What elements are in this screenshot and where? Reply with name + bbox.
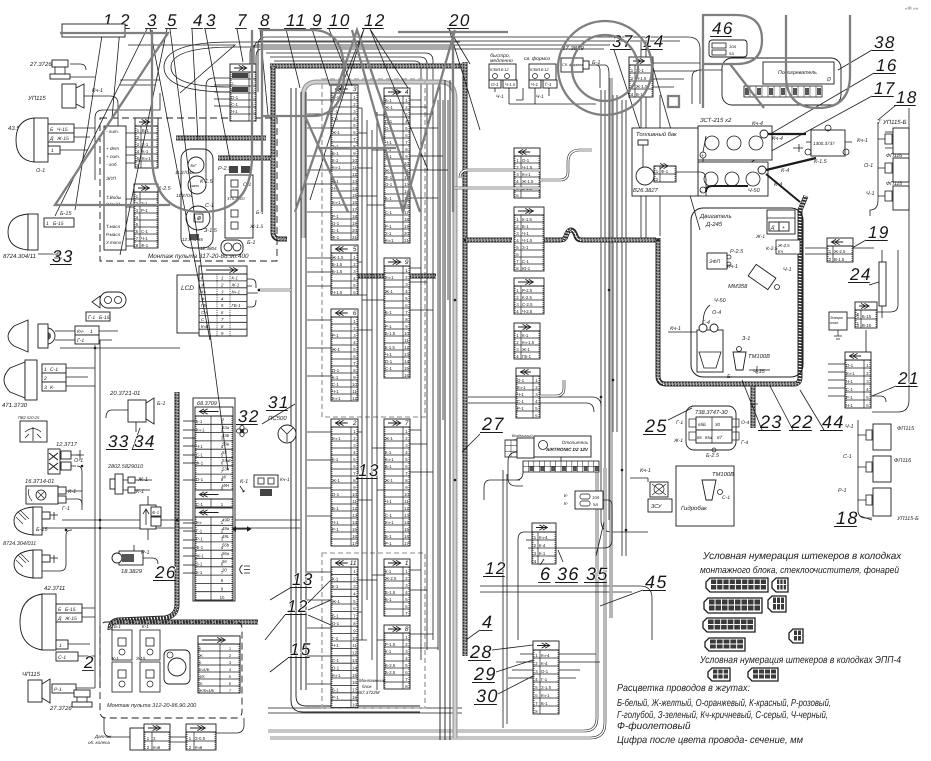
svg-text:5А: 5А [729,51,734,56]
svg-text:15: 15 [352,527,357,532]
svg-text:12: 12 [404,506,409,511]
svg-text:4/К: 4/К [199,674,205,679]
connector X6 монтажный блок [331,309,358,401]
wire far right vertical [872,108,909,412]
svg-text:27: 27 [481,414,505,434]
svg-text:ПВ2.520-25: ПВ2.520-25 [18,415,40,420]
wire top harness horizontals [266,37,700,104]
svg-text:Ф-1: Ф-1 [196,545,204,550]
svg-text:68.3709: 68.3709 [197,401,217,407]
svg-text:12: 12 [352,506,357,511]
svg-text:К-: К- [50,385,55,391]
svg-text:С-1: С-1 [231,102,239,107]
svg-text:Ж-15: Ж-15 [56,136,69,142]
wire bump loop from XA [452,170,540,188]
svg-text:12: 12 [287,597,309,616]
svg-text:12: 12 [352,396,357,401]
svg-text:Кч-1: Кч-1 [232,289,241,294]
connector X46a [629,57,653,97]
svg-text:К-1: К-1 [68,489,76,495]
пульт переключатели [112,630,132,660]
svg-text:Кч4/Б: Кч4/Б [199,667,210,672]
svg-text:36: 36 [557,564,580,584]
svg-text:2802.5829010: 2802.5829010 [107,464,144,470]
connector XA [514,148,540,198]
svg-text:ЧП115: ЧП115 [22,671,41,678]
svg-text:Кч-1: Кч-1 [857,138,868,144]
svg-text:32: 32 [238,407,260,426]
svg-text:85а: 85а [705,435,713,440]
svg-text:Ж-1: Ж-1 [385,436,393,441]
svg-text:Расцветка проводов в жгутах:: Расцветка проводов в жгутах: [617,683,750,694]
svg-text:53: 53 [222,450,227,455]
svg-text:Г-1: Г-1 [332,636,339,641]
svg-text:К-1.5: К-1.5 [385,345,396,350]
svg-text:Б: Б [857,312,860,317]
wire bottom outer loop [268,470,597,731]
svg-text:К-4: К-4 [541,661,548,666]
датчик ТМ100В в двигателе [733,352,746,370]
svg-text:Кч: Кч [778,249,784,254]
connector X21 [845,352,871,408]
svg-text:12: 12 [404,345,409,350]
wires into 68.3709 [183,420,195,422]
svg-text:С-1: С-1 [50,367,58,373]
svg-text:Б-1.5: Б-1.5 [332,269,343,274]
svg-text:22: 22 [790,412,814,432]
svg-text:Г-1: Г-1 [676,420,683,426]
svg-text:С-1: С-1 [385,210,393,215]
svg-text:К-: К- [564,493,569,498]
пульт прикуриватель [164,650,190,684]
svg-text:Б-1: Б-1 [332,506,339,511]
svg-text:53е: 53е [222,442,230,447]
svg-text:Г-4: Г-4 [741,440,748,446]
svg-text:53а: 53а [222,425,230,430]
svg-text:11: 11 [350,560,357,567]
svg-text:УП115: УП115 [27,95,46,102]
svg-text:21: 21 [404,238,409,243]
connector X1 монтажный блок [384,559,410,616]
svg-text:20: 20 [404,231,409,236]
bundle pult horizontal y203 [218,156,271,161]
svg-text:18: 18 [836,508,859,528]
svg-text:Ч-1: Ч-1 [231,109,238,114]
svg-text:О-4: О-4 [741,420,750,426]
svg-text:К-1: К-1 [142,624,149,629]
device гидробак [676,466,734,526]
svg-text:Б-2.5: Б-2.5 [385,670,396,675]
svg-text:О-1: О-1 [385,359,393,364]
svg-text:С-1: С-1 [58,655,66,661]
svg-text:С-1: С-1 [196,502,204,507]
wire pair y397 below engine [468,397,601,406]
svg-text:Б-1: Б-1 [332,614,339,619]
connector LCD [177,275,200,333]
svg-text:Р-1: Р-1 [385,224,392,229]
bundle drop x753 [751,386,756,428]
svg-text:С-1: С-1 [196,452,204,457]
svg-text:8: 8 [260,11,271,30]
dark cells X78 [232,73,248,78]
svg-text:10: 10 [404,331,409,336]
svg-text:1: 1 [857,321,859,326]
svg-text:Кч-4: Кч-4 [752,121,763,127]
wire verticals x=640,660 top [640,42,642,238]
svg-text:Р-1: Р-1 [838,488,847,494]
фонарь ФП115 верхний [893,128,909,154]
svg-text:Кч-1.5: Кч-1.5 [522,340,535,345]
svg-text:Ч-1: Ч-1 [332,389,339,394]
svg-text:+: + [701,153,704,159]
svg-text:Б-1: Б-1 [522,224,529,229]
svg-text:К-: К- [564,501,569,506]
wires central gap [361,108,363,640]
svg-text:Б-1: Б-1 [385,597,392,602]
svg-text:К-1: К-1 [142,149,149,154]
svg-text:12: 12 [352,172,357,177]
svg-text:Б-1.5: Б-1.5 [332,262,343,267]
svg-text:10А: 10А [592,495,600,500]
svg-text:−: − [700,189,703,195]
svg-text:27.3726: 27.3726 [49,705,72,712]
svg-text:15: 15 [404,366,409,371]
svg-text:⊤ УП115-Б: ⊤ УП115-Б [876,119,907,126]
svg-text:Р-1: Р-1 [385,541,392,546]
svg-text:45: 45 [645,572,668,592]
svg-text:Ж-1: Ж-1 [385,105,393,110]
svg-text:медленно: медленно [490,58,513,64]
svg-text:14: 14 [352,186,357,191]
svg-text:12: 12 [352,651,357,656]
svg-text:30: 30 [222,567,227,572]
svg-text:2: 2 [352,420,357,427]
svg-text:К-1: К-1 [332,158,339,163]
dashed box Монтаж пульта 317-20-86.90.400 [100,118,277,261]
svg-text:Ч-1: Ч-1 [783,267,792,273]
svg-text:Г-1: Г-1 [77,338,84,344]
svg-text:- лоб: - лоб [106,162,117,167]
svg-text:6: 6 [540,564,551,584]
svg-text:Б-1: Б-1 [247,240,255,246]
svg-text:К-1: К-1 [196,570,203,575]
svg-text:К-1: К-1 [332,375,339,380]
svg-text:О-1: О-1 [332,221,340,226]
клеммная колодка подогревателя [744,86,822,97]
svg-text:блок: блок [362,684,372,689]
svg-text:Ч-1: Ч-1 [332,643,339,648]
watermark ZURAVTO.RU [55,15,850,212]
svg-text:Д: Д [49,136,54,142]
svg-text:Монтаж пульта 312-20-86.90.200: Монтаж пульта 312-20-86.90.200 [107,703,197,709]
wire mid horizontals right of block [480,586,652,640]
svg-text:О-1: О-1 [332,492,340,497]
connector X5 монтажный блок [331,245,358,295]
svg-text:С-1: С-1 [385,366,393,371]
connector X24 [855,302,877,328]
svg-text:Р-1: Р-1 [196,537,203,542]
svg-text:35: 35 [586,564,609,584]
svg-text:монтажного блока, стеклоочисти: монтажного блока, стеклоочистителя, фона… [700,564,900,575]
svg-text:WH: WH [222,483,230,488]
device Ф-1 клапан со стрелкой [140,505,156,529]
svg-text:+ пит.: + пит. [106,154,120,159]
svg-text:17: 17 [404,210,409,215]
svg-text:4: 4 [482,612,493,632]
device ЭПП панель [104,126,126,250]
svg-text:Условная нумерация штекеров в: Условная нумерация штекеров в колодках [702,551,902,562]
central block outer frame wires [291,88,420,712]
svg-text:З-1: З-1 [385,231,392,236]
svg-text:Ч-1: Ч-1 [866,191,875,197]
svg-text:Б-1: Б-1 [385,464,392,469]
svg-text:К-1: К-1 [522,333,529,338]
svg-text:3: 3 [206,11,217,30]
svg-text:С-1: С-1 [332,228,340,233]
svg-text:Кч-1: Кч-1 [385,238,394,243]
svg-text:Кч-1: Кч-1 [517,385,526,390]
svg-text:К-4: К-4 [539,543,546,548]
svg-text:Б-15: Б-15 [53,221,64,227]
svg-text:15: 15 [352,673,357,678]
svg-text:24: 24 [849,265,872,284]
svg-text:Р-2.5: Р-2.5 [730,249,744,255]
svg-text:Ч-1: Ч-1 [517,392,524,397]
svg-text:С-2.5: С-2.5 [522,302,533,307]
connector X3 монтажный блок [331,85,358,240]
connector П2 пульта [134,184,158,248]
wire gray trunk x=611 [609,78,612,618]
device 18.3829 [119,551,143,565]
svg-text:О-1: О-1 [332,621,340,626]
device топливный бак [632,128,698,196]
svg-text:З-1.5: З-1.5 [204,228,218,234]
svg-text:44: 44 [822,412,845,432]
svg-text:О-1: О-1 [332,368,340,373]
svg-text:Г-1: Г-1 [196,528,203,533]
svg-text:8: 8 [405,626,409,633]
svg-text:AIRTRONIC D2 12V: AIRTRONIC D2 12V [545,447,589,452]
svg-text:О-1: О-1 [36,168,45,174]
svg-text:Б-1.5: Б-1.5 [385,590,396,595]
svg-text:17: 17 [352,207,357,212]
svg-text:Ж-1: Ж-1 [755,234,765,240]
svg-text:23: 23 [759,412,783,432]
svg-text:87: 87 [717,435,723,440]
svg-text:Монтажный: Монтажный [359,678,386,683]
svg-text:Кчб: Кчб [153,745,161,750]
svg-text:К-2.5: К-2.5 [522,295,533,300]
svg-text:1: 1 [405,560,409,567]
svg-text:Кч-1: Кч-1 [670,326,681,332]
клеммная колодка отопителя [523,461,599,472]
svg-text:Ч-1: Ч-1 [522,231,529,236]
svg-text:25: 25 [644,416,668,436]
connector X2 монтажный блок [331,419,358,546]
svg-text:Д-245: Д-245 [705,221,723,228]
svg-text:С-1: С-1 [522,259,530,264]
svg-text:26: 26 [154,563,177,582]
svg-text:Т.масл: Т.масл [106,224,121,229]
svg-text:Б-2.5: Б-2.5 [706,453,720,459]
svg-text:Р-1: Р-1 [385,324,392,329]
svg-text:Б-1.5: Б-1.5 [385,331,396,336]
svg-text:12: 12 [364,11,386,30]
svg-text:14: 14 [352,665,357,670]
svg-text:16.3714-01: 16.3714-01 [25,478,54,485]
svg-text:6: 6 [353,310,357,317]
connector X28 нижний [533,641,559,714]
svg-text:27.3726: 27.3726 [29,61,52,68]
svg-text:Ж-1: Ж-1 [332,599,340,604]
dashed gray block outline bottom [322,553,425,708]
svg-text:86: 86 [697,435,702,440]
bundle top horizontal y66 [270,64,462,69]
connector X4 монтажный блок [384,88,410,243]
svg-text:49R: 49R [222,518,230,523]
svg-text:К-1.5: К-1.5 [522,217,533,222]
svg-text:Р-1: Р-1 [332,695,339,700]
svg-text:29: 29 [473,664,497,684]
svg-text:О-1: О-1 [517,378,525,383]
svg-text:Кч-4: Кч-4 [539,535,548,540]
device блок переключателей 11.3704 [181,149,213,248]
svg-text:Кч-1: Кч-1 [640,468,651,474]
svg-text:Кч-1: Кч-1 [142,156,151,161]
svg-text:33: 33 [52,247,74,266]
svg-text:об. колеса: об. колеса [88,740,110,745]
svg-text:К-1: К-1 [332,577,339,582]
svg-text:13: 13 [352,179,357,184]
svg-text:Д: Д [57,616,62,622]
connector пульта К/Ж [198,636,240,692]
svg-text:10: 10 [404,492,409,497]
реле 1300.3737 [811,130,845,156]
svg-text:21: 21 [352,235,357,240]
svg-text:Р-1.5: Р-1.5 [385,642,396,647]
svg-text:Б-1: Б-1 [114,624,121,629]
svg-text:3: 3 [353,86,357,93]
svg-text:20: 20 [352,228,357,233]
svg-text:18: 18 [352,214,357,219]
connector XB [514,207,544,271]
svg-text:Двигатель: Двигатель [699,213,732,220]
svg-text:Б-2.5: Б-2.5 [385,663,396,668]
svg-text:34: 34 [134,432,156,451]
wire right vertical pair x=601 [601,90,648,532]
device блок предохранителей 46 [709,40,747,57]
dashed gray block outline top [322,79,425,417]
svg-text:Кч-1: Кч-1 [332,436,341,441]
device 12.3804 [221,240,243,255]
фонарь ФП115 нижний [893,186,909,210]
svg-text:С-1: С-1 [141,229,149,234]
connector П1 пульта [135,118,158,168]
svg-text:О-1: О-1 [846,363,854,368]
svg-text:Подогреватель: Подогреватель [778,70,817,76]
svg-text:Г-голубой, З-зеленый, Кч-кричн: Г-голубой, З-зеленый, Кч-кричневый, С-се… [617,710,828,721]
svg-text:Г-1: Г-1 [545,82,552,87]
svg-text:Кч-4: Кч-4 [772,136,783,142]
svg-text:С-1: С-1 [517,399,525,404]
svg-text:Ж: Ж [199,653,203,658]
svg-text:ТМ100В: ТМ100В [712,471,734,478]
svg-text:738.3747-30: 738.3747-30 [695,409,728,416]
svg-text:18: 18 [896,88,918,107]
svg-text:9: 9 [312,11,323,30]
svg-text:Кч-1: Кч-1 [727,264,738,270]
device электроклапан [829,312,847,330]
svg-text:Ч-1.5: Ч-1.5 [332,290,343,295]
svg-text:Б-1: Б-1 [385,98,392,103]
svg-text:Ч-1: Ч-1 [141,236,148,241]
dashed box Монтаж пульта 312-20-86.90.200 [100,622,242,718]
device стеклоомыватель с иконкой [20,421,47,442]
svg-text:18: 18 [404,217,409,222]
svg-text:Ч-15: Ч-15 [57,127,68,133]
svg-text:Кч-: Кч- [196,520,203,525]
svg-text:Ж-1: Ж-1 [522,347,530,352]
svg-text:5: 5 [353,246,357,253]
датчик ММ358 [748,264,776,289]
svg-text:З-0.5: З-0.5 [195,736,206,741]
svg-text:Ж-1: Ж-1 [385,289,393,294]
svg-text:Ж-1: Ж-1 [385,478,393,483]
svg-text:Цифра после цвета провода- сеч: Цифра после цвета провода- сечение, мм [617,735,803,746]
icons beside 68.3709 [237,426,248,437]
svg-text:Кч-1: Кч-1 [280,477,290,483]
svg-text:О-1: О-1 [74,458,83,464]
svg-text:Ф-1: Ф-1 [196,461,204,466]
device повторитель поворота [100,292,126,308]
svg-text:7: 7 [405,420,409,427]
svg-text:Б-1: Б-1 [332,151,339,156]
svg-text:14: 14 [352,520,357,525]
svg-text:В-1.5: В-1.5 [834,257,845,262]
svg-text:30: 30 [715,422,721,427]
svg-text:Ч-1.5: Ч-1.5 [522,238,533,243]
svg-text:Ж-2.5: Ж-2.5 [834,249,846,254]
svg-text:1: 1 [44,367,47,373]
svg-text:Кч-1: Кч-1 [541,693,550,698]
svg-text:К-2.5: К-2.5 [766,246,778,252]
svg-text:Кч-1: Кч-1 [846,371,855,376]
svg-text:ЗкГ: ЗкГ [190,163,197,168]
svg-text:К-1.5: К-1.5 [200,179,214,185]
svg-text:20.3721-01: 20.3721-01 [109,390,140,397]
svg-text:⊥: ⊥ [231,81,235,86]
svg-text:38: 38 [874,33,896,52]
svg-text:16: 16 [352,200,357,205]
svg-text:ЗСУ: ЗСУ [651,504,662,510]
svg-text:З-1: З-1 [742,336,750,342]
svg-text:1: 1 [51,148,54,154]
svg-text:Ч-1: Ч-1 [846,403,853,408]
svg-text:Ч-1: Ч-1 [332,520,339,525]
svg-text:Г-1: Г-1 [62,506,70,512]
svg-text:Р-1: Р-1 [54,687,62,693]
svg-text:Б-15: Б-15 [60,211,72,217]
svg-text:Б-1: Б-1 [157,401,165,407]
small icons над 375.3710 [229,166,238,173]
svg-text:Б-1: Б-1 [385,534,392,539]
svg-text:7: 7 [237,11,248,30]
svg-text:Кч-1: Кч-1 [332,396,341,401]
svg-text:Б-15: Б-15 [99,315,110,321]
svg-text:11: 11 [404,499,409,504]
connector X78 верхний [230,64,256,121]
svg-text:ЭФП: ЭФП [709,259,721,265]
